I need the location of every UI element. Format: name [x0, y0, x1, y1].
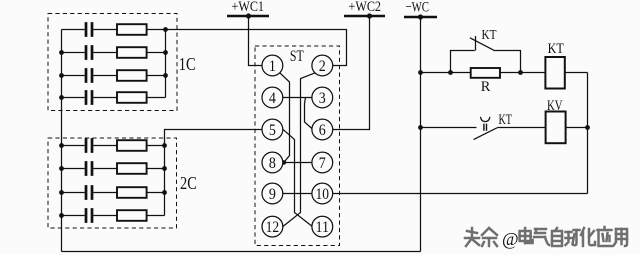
junction dots 2C right bus — [162, 143, 167, 195]
svg-text:10: 10 — [316, 186, 330, 203]
wire left bus through 1C and 2C — [61, 30, 63, 252]
wire lower branch -WC to contact — [421, 127, 477, 129]
junction dots R loop — [418, 70, 523, 75]
resistor R — [471, 68, 500, 78]
resistor 1C row1 — [117, 24, 147, 35]
resistor 2C row2 — [117, 163, 147, 174]
wire +WC1 down to ST pin 1 — [249, 16, 263, 66]
wire upper branch -WC to KT coil — [421, 72, 546, 74]
contact KT delayed normally-open (bottom) — [474, 117, 498, 140]
wire contact to KV coil — [498, 127, 546, 129]
wire KT coil to right rail — [565, 72, 588, 74]
terminal pin 5 of ST — [262, 119, 283, 140]
resistor 2C row1 — [117, 140, 147, 151]
wire 2C row3 — [62, 192, 165, 194]
resistor 1C row4 — [117, 92, 147, 103]
terminal pin 2 of ST — [312, 55, 333, 76]
junction dot lower branch at -WC — [418, 125, 423, 130]
svg-text:6: 6 — [319, 122, 326, 139]
svg-text:ST: ST — [290, 48, 304, 65]
svg-text:+WC1: +WC1 — [232, 0, 265, 15]
svg-text:1: 1 — [269, 58, 276, 75]
terminal pin 10 of ST — [312, 183, 333, 204]
capacitor 1C row2 — [86, 45, 92, 60]
terminal pin 11 of ST — [312, 216, 333, 237]
wire ST pin9 to pin10 — [283, 193, 312, 195]
svg-text:5: 5 — [269, 122, 276, 139]
svg-text:+WC2: +WC2 — [349, 0, 382, 15]
terminal pin 1 of ST — [262, 55, 283, 76]
svg-text:2: 2 — [319, 58, 326, 75]
svg-text:7: 7 — [319, 155, 326, 172]
junction dot right rail — [585, 125, 590, 130]
wire 1C row4 — [62, 97, 166, 99]
wire R parallel loop — [451, 51, 521, 73]
capacitor 1C row3 — [86, 68, 92, 83]
svg-text:11: 11 — [316, 219, 330, 236]
wire 1C row2 — [62, 52, 166, 54]
svg-text:2C: 2C — [180, 173, 197, 193]
svg-text:4: 4 — [269, 90, 276, 107]
junction dots 1C left bus — [59, 50, 64, 100]
svg-text:KT: KT — [499, 112, 513, 128]
dashed enclosure 2C — [48, 138, 177, 228]
wire 1C top row to ST pin 2 — [166, 30, 347, 66]
wire 1C row3 — [62, 75, 166, 77]
capacitor 2C row2 — [86, 161, 92, 176]
wire ST pin2 to pin12 rail — [283, 73, 315, 227]
resistor 1C row2 — [117, 47, 147, 58]
terminal pin 12 of ST — [262, 216, 283, 237]
svg-text:9: 9 — [269, 186, 276, 203]
terminal pin 6 of ST — [312, 119, 333, 140]
coil KT — [545, 57, 564, 89]
junction dots terminal bars — [246, 13, 423, 19]
svg-text:KT: KT — [482, 28, 497, 43]
svg-text:KV: KV — [547, 98, 563, 114]
svg-text:12: 12 — [266, 219, 280, 236]
wire 1C right bus — [165, 30, 167, 98]
terminal pin 3 of ST — [312, 87, 333, 108]
wire +WC2 down to ST pin 6 — [333, 16, 370, 130]
svg-text:8: 8 — [269, 155, 276, 172]
terminal pin 8 of ST — [262, 152, 283, 173]
wire ST pin5 to pin11 rail — [283, 129, 312, 226]
svg-text:1C: 1C — [179, 54, 196, 74]
wire 1C row1 — [62, 29, 166, 31]
capacitor 2C row3 — [86, 185, 92, 200]
wire ST branch to pin6 — [305, 98, 313, 129]
wire -WC vertical — [420, 17, 422, 252]
wire 2C row4 — [62, 215, 165, 217]
wire 2C row2 — [62, 168, 165, 170]
capacitor 2C row1 — [86, 138, 92, 153]
junction dots 2C left bus — [59, 143, 64, 218]
terminal pin 4 of ST — [262, 87, 283, 108]
coil KV — [546, 112, 566, 144]
wire 2C right bus up to ST pin 5 — [165, 130, 263, 216]
svg-text:3: 3 — [319, 90, 326, 107]
wire ST pin1 to pins 8-7 rail — [280, 73, 290, 163]
junction dot ST node near pin8 — [282, 160, 287, 165]
resistor 2C row4 — [117, 210, 147, 221]
watermark toutiao electrical automation application — [466, 228, 628, 247]
dashed enclosure 1C — [48, 14, 177, 111]
wire ST pin10 to right rail — [333, 193, 588, 195]
wire bottom return bus — [62, 251, 421, 253]
wire 2C row1 — [62, 145, 165, 147]
svg-text:−WC: −WC — [406, 0, 430, 16]
node +WC1 terminal bar — [227, 15, 269, 18]
capacitor 1C row1 — [86, 22, 92, 37]
junction dots 1C right bus — [163, 27, 168, 78]
resistor 2C row3 — [117, 187, 147, 198]
capacitor 1C row4 — [86, 90, 92, 105]
svg-text:@: @ — [502, 229, 519, 249]
capacitor 2C row4 — [86, 208, 92, 223]
terminal pin 7 of ST — [312, 152, 333, 173]
dashed enclosure ST — [255, 46, 340, 246]
node -WC terminal bar — [404, 16, 437, 19]
terminal pin 9 of ST — [262, 183, 283, 204]
svg-text:R: R — [481, 79, 491, 95]
wire KV coil to right rail — [566, 127, 588, 129]
resistor 1C row3 — [117, 70, 147, 81]
node +WC2 terminal bar — [344, 15, 385, 18]
wire ST pin8 to pin7 — [283, 162, 312, 164]
contact KT normally-closed (top) — [470, 36, 495, 51]
svg-text:KT: KT — [548, 41, 564, 57]
wire right rail down to ST pin10 link — [587, 73, 589, 194]
wire ST pin4 to pin3 — [283, 97, 312, 99]
